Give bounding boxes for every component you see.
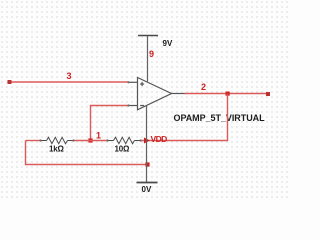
wire ground return loop <box>26 141 148 165</box>
wire net 2 (op-amp output) <box>185 93 269 95</box>
wire op-amp V- pin down to ground <box>146 106 148 183</box>
svg-text:10Ω: 10Ω <box>115 145 130 154</box>
svg-text:0V: 0V <box>142 185 152 194</box>
9V power rail symbol <box>138 35 158 37</box>
wire net 9 (9V rail to op-amp V+) <box>147 36 149 82</box>
resistor R2 10Ohm <box>108 137 141 143</box>
wire net 1 (inverting input to node 1) <box>91 106 129 141</box>
wire net 3 (input to op-amp + input) <box>10 81 129 83</box>
VDD connector arrow on V- pin wire <box>144 138 150 144</box>
svg-text:1: 1 <box>96 130 101 140</box>
wire between R1 and R2 <box>73 140 109 142</box>
svg-text:9V: 9V <box>163 39 173 48</box>
resistor R1 1kOhm <box>41 137 74 143</box>
op-amp U1 OPAMP_5T_VIRTUAL <box>129 78 185 110</box>
wire resistor chain left segment <box>26 140 42 142</box>
svg-text:VDD: VDD <box>151 134 168 144</box>
output terminal dot net 2 <box>266 92 270 96</box>
svg-text:9: 9 <box>149 49 154 59</box>
junction on ground wire <box>145 162 149 166</box>
svg-text:1kΩ: 1kΩ <box>49 145 64 154</box>
ground 0V power symbol <box>137 182 158 184</box>
svg-text:2: 2 <box>201 82 206 92</box>
junction node 2 (feedback tap) <box>226 92 230 96</box>
junction node 1 <box>88 138 92 142</box>
svg-text:OPAMP_5T_VIRTUAL: OPAMP_5T_VIRTUAL <box>174 113 266 123</box>
wire feedback (output down to VDD rail wire) <box>141 94 228 141</box>
input terminal dot net 3 <box>8 80 12 84</box>
svg-text:3: 3 <box>67 71 72 81</box>
pin end dots <box>39 81 141 141</box>
